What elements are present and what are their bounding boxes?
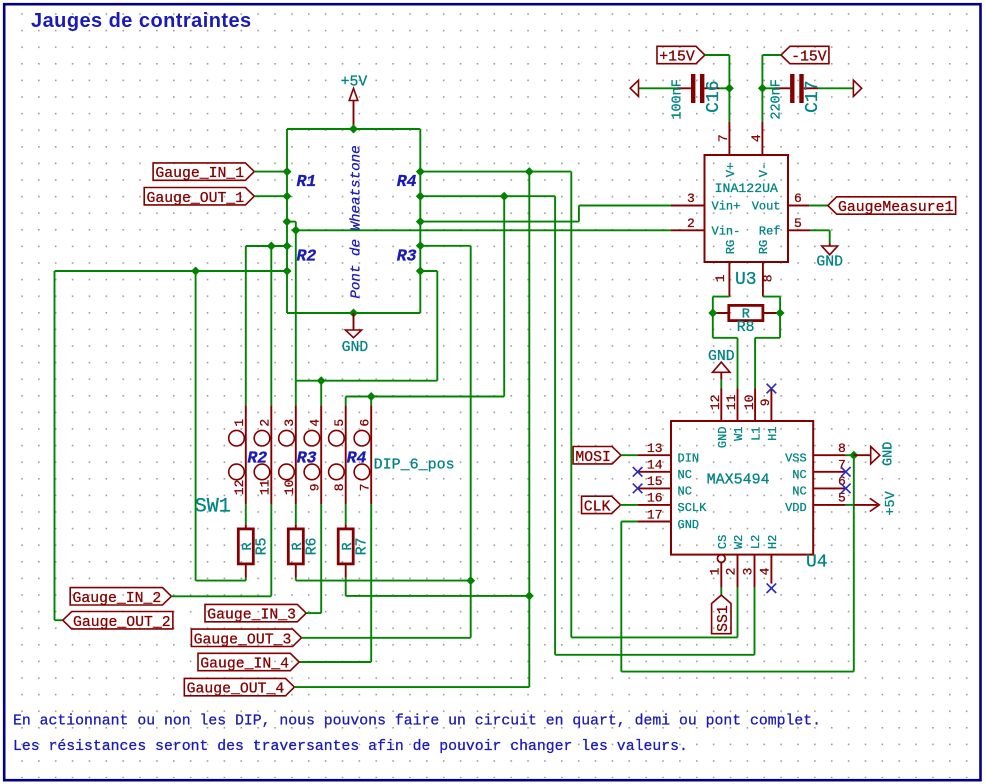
svg-text:V+: V+ xyxy=(724,163,738,177)
wire GND bus right vertical xyxy=(853,455,855,671)
wire Vout to label xyxy=(809,205,828,207)
svg-text:4: 4 xyxy=(749,134,764,142)
wire Gauge_IN_2 up xyxy=(270,504,272,596)
svg-text:Gauge_OUT_4: Gauge_OUT_4 xyxy=(187,682,285,698)
svg-text:R1: R1 xyxy=(297,172,317,191)
svg-text:R4: R4 xyxy=(397,172,417,191)
svg-text:8: 8 xyxy=(838,441,846,456)
svg-text:16: 16 xyxy=(647,491,663,506)
svg-text:R5: R5 xyxy=(255,538,271,556)
junction DIP pos6 xyxy=(367,392,376,401)
wire Gauge_OUT_4 xyxy=(294,686,529,688)
svg-text:NC: NC xyxy=(678,485,692,499)
resistor R5 xyxy=(238,524,256,577)
svg-text:U3: U3 xyxy=(735,270,757,290)
wire net Vin- down to DIP xyxy=(295,230,297,380)
wire MOSI to pin13 xyxy=(621,454,638,456)
label +15V xyxy=(657,46,705,65)
wire R6 bottom horizontal xyxy=(296,580,471,582)
junction R8 left xyxy=(708,309,717,318)
svg-text:8: 8 xyxy=(332,483,347,491)
svg-text:11: 11 xyxy=(724,394,739,410)
junction left rail 3 xyxy=(283,217,292,226)
svg-text:Vin-: Vin- xyxy=(712,225,741,239)
junction net OUT4 xyxy=(525,167,534,176)
junction VSS GND xyxy=(849,451,858,460)
junction bridge top xyxy=(349,125,358,134)
wire R5 top xyxy=(245,504,247,524)
wire Ref to GND xyxy=(810,229,830,231)
svg-text:GND: GND xyxy=(716,426,730,448)
junction R6 OUT3 xyxy=(466,576,475,585)
wire C16 right xyxy=(719,87,729,89)
svg-text:DIN: DIN xyxy=(678,452,700,466)
wire R6 bottom xyxy=(295,578,297,581)
svg-text:R3: R3 xyxy=(397,247,417,266)
ground GND at U4 pin12 xyxy=(708,349,735,379)
svg-text:Jauges de contraintes: Jauges de contraintes xyxy=(31,10,252,32)
wire Gauge_IN_4 xyxy=(299,661,371,663)
wire R5 bottom xyxy=(245,578,247,581)
label SS1 xyxy=(712,595,732,634)
svg-text:V-: V- xyxy=(757,163,771,177)
switch SW1 position 1 xyxy=(229,405,247,504)
svg-text:+5V: +5V xyxy=(341,75,368,91)
wire R7 bottom horizontal xyxy=(346,595,530,597)
wire tap Vin- a xyxy=(287,221,296,223)
svg-text:U4: U4 xyxy=(806,553,828,573)
svg-text:GND: GND xyxy=(816,254,843,270)
svg-text:11: 11 xyxy=(258,479,273,495)
junction R7 OUT4 xyxy=(525,591,534,600)
label Gauge_IN_2 xyxy=(70,588,171,607)
wire right rail 2 horizontal xyxy=(420,195,555,197)
wire R8 bottom right xyxy=(755,337,780,339)
wire R5 bottom horizontal xyxy=(196,580,246,582)
wire pin2 horizontal xyxy=(571,636,737,638)
svg-text:Ref: Ref xyxy=(759,225,781,239)
svg-text:10: 10 xyxy=(742,394,757,410)
svg-text:Gauge_OUT_2: Gauge_OUT_2 xyxy=(73,615,171,631)
wire pin2 down xyxy=(737,587,739,637)
wire R8 bottom to pin10 xyxy=(754,338,756,389)
svg-text:100nF: 100nF xyxy=(670,79,685,120)
wire R8 bottom to pin11 xyxy=(737,338,739,389)
svg-text:NC: NC xyxy=(792,468,806,482)
wire net Vin- horizontal xyxy=(296,229,671,231)
svg-text:Vin+: Vin+ xyxy=(712,200,741,214)
svg-text:7: 7 xyxy=(716,134,731,142)
junction C17 xyxy=(758,84,767,93)
wire down to R5 bottom xyxy=(195,271,197,581)
svg-text:RG: RG xyxy=(724,240,738,254)
junction right rail 1 xyxy=(416,167,425,176)
wire Gauge_IN_2 xyxy=(171,595,271,597)
wire pin3 down xyxy=(754,587,756,654)
pin 6 Vout xyxy=(752,191,810,214)
svg-text:Les résistances seront des tra: Les résistances seront des traversantes … xyxy=(13,739,688,755)
svg-text:7: 7 xyxy=(357,483,372,491)
wire DIP pos5 stub xyxy=(345,397,347,406)
wire C16 left xyxy=(639,87,677,89)
svg-text:2: 2 xyxy=(687,216,695,231)
wire net OUT4 vertical xyxy=(570,172,572,638)
svg-text:2: 2 xyxy=(258,419,273,427)
wire net pin3U4 vertical upper xyxy=(503,196,505,396)
pin 14 NC left xyxy=(638,458,692,483)
wire tap Vin- b xyxy=(295,222,297,231)
wire right rail 3 horizontal xyxy=(420,221,579,223)
wire DIP pos2 feed xyxy=(270,246,272,405)
capacitor C16 xyxy=(677,74,719,103)
svg-text:L2: L2 xyxy=(749,535,763,549)
no-connect pin 7 xyxy=(841,467,851,477)
no-connect pin 9 xyxy=(767,384,777,394)
svg-text:5: 5 xyxy=(794,216,802,231)
pin 10 L1 top xyxy=(742,389,764,441)
svg-text:INA122UA: INA122UA xyxy=(715,181,778,196)
wire left down to Gauge_OUT_2 xyxy=(54,271,56,620)
switch SW1 position 5 xyxy=(329,405,347,504)
wire -15V down xyxy=(761,55,763,122)
switch SW1 position 4 xyxy=(304,405,322,504)
wire Gauge_OUT_2 stub xyxy=(55,619,63,621)
svg-text:DIP_6_pos: DIP_6_pos xyxy=(374,456,455,473)
svg-text:L1: L1 xyxy=(750,426,764,440)
junction Vin- tap xyxy=(291,226,300,235)
junction left rail 1 xyxy=(283,167,292,176)
svg-text:5: 5 xyxy=(332,419,347,427)
junction R8 right xyxy=(776,309,785,318)
svg-text:12: 12 xyxy=(708,394,723,410)
svg-text:15: 15 xyxy=(647,474,663,489)
pin 13 DIN left xyxy=(638,441,700,466)
wire +15V to C16 xyxy=(705,54,730,56)
svg-text:+5V: +5V xyxy=(884,490,899,515)
wire GND bus bottom xyxy=(621,671,854,673)
no-connect pin 4 xyxy=(767,583,777,593)
junction left rail 4 xyxy=(283,242,292,251)
pin 6 NC right xyxy=(792,474,846,499)
svg-text:NC: NC xyxy=(792,485,806,499)
pin 3 Vin+ xyxy=(671,191,741,214)
svg-text:1: 1 xyxy=(232,419,247,427)
svg-text:R2: R2 xyxy=(247,448,267,467)
wire pin3 horizontal xyxy=(555,654,754,656)
arrow right unconnected xyxy=(853,80,861,96)
svg-text:R6: R6 xyxy=(305,538,321,556)
svg-text:SCLK: SCLK xyxy=(678,501,708,515)
wire net OUT3 vertical xyxy=(470,246,472,638)
wire pin8 to GND xyxy=(846,454,854,456)
wire right rail 4 horizontal xyxy=(420,245,470,247)
svg-text:R7: R7 xyxy=(355,538,371,556)
wire net OUT4 vertical long xyxy=(528,172,530,688)
no-connect pin 6 xyxy=(841,484,851,494)
svg-text:H2: H2 xyxy=(766,535,780,549)
svg-text:Pont de Wheatstone: Pont de Wheatstone xyxy=(348,145,364,298)
wire net Vin+ xyxy=(579,205,671,207)
pin 15 NC left xyxy=(638,474,692,499)
label Gauge_IN_1 xyxy=(153,163,254,182)
pin 1 RG xyxy=(713,240,738,297)
wire GND to pin12 xyxy=(720,379,722,388)
switch SW1 position 3 xyxy=(279,405,297,504)
junction net pin3 U4 xyxy=(500,192,509,201)
svg-text:R8: R8 xyxy=(737,320,755,336)
wire Gauge_IN_3 xyxy=(306,612,321,614)
pin 12 GND top xyxy=(708,389,730,449)
pin 2 W2 bottom xyxy=(724,535,747,588)
junction right rail 3 xyxy=(416,217,425,226)
wire Ref GND down xyxy=(829,230,831,243)
svg-text:6: 6 xyxy=(794,191,802,206)
ground GND bridge xyxy=(342,313,369,356)
svg-text:9: 9 xyxy=(307,483,322,491)
wire C17 left xyxy=(762,87,775,89)
junction DIP pos2 feed xyxy=(267,242,276,251)
label Gauge_OUT_1 xyxy=(144,188,254,207)
pin 7 V+ xyxy=(716,122,738,178)
svg-text:Gauge_IN_4: Gauge_IN_4 xyxy=(200,657,289,673)
pin 8 RG xyxy=(757,240,775,297)
junction C16 xyxy=(725,84,734,93)
wire Gauge_IN_3 up xyxy=(320,504,322,613)
svg-text:Vout: Vout xyxy=(752,200,781,214)
label CLK xyxy=(582,496,621,515)
wire DIP pos3 horizontal xyxy=(296,380,438,382)
svg-text:R: R xyxy=(291,542,306,550)
pin 5 Ref xyxy=(759,216,810,239)
ground GND at Ref xyxy=(816,244,843,271)
wire R7 top xyxy=(345,504,347,524)
junction bridge bottom xyxy=(349,309,358,318)
junction left rail 2 xyxy=(283,192,292,201)
svg-text:R4: R4 xyxy=(347,448,367,467)
svg-text:MOSI: MOSI xyxy=(575,450,611,466)
svg-text:1: 1 xyxy=(713,274,728,282)
junction right rail 4 xyxy=(416,241,425,250)
svg-text:GaugeMeasure1: GaugeMeasure1 xyxy=(838,200,954,216)
svg-text:4: 4 xyxy=(757,567,772,575)
svg-text:Gauge_IN_1: Gauge_IN_1 xyxy=(155,166,244,182)
svg-text:1: 1 xyxy=(707,567,722,575)
capacitor C17 xyxy=(775,74,818,103)
junction R5 net xyxy=(191,267,200,276)
pin 7 NC right xyxy=(792,458,846,483)
svg-text:MAX5494: MAX5494 xyxy=(707,471,770,488)
wire bridge left rail xyxy=(286,129,288,313)
wire R8 top right xyxy=(763,296,780,298)
arrow left unconnected xyxy=(630,80,638,96)
svg-text:-15V: -15V xyxy=(791,50,827,66)
switch SW1 position 6 xyxy=(354,405,372,504)
svg-text:14: 14 xyxy=(647,458,663,473)
power +5V xyxy=(341,75,368,129)
wire bridge right rail xyxy=(419,129,421,313)
label -15V xyxy=(781,46,829,65)
resistor R7 xyxy=(338,524,356,577)
svg-text:VSS: VSS xyxy=(785,452,807,466)
pin 11 W1 top xyxy=(724,389,746,441)
wire bridge top xyxy=(287,128,420,130)
svg-text:220nF: 220nF xyxy=(769,79,784,120)
wire Gauge_OUT_3 xyxy=(302,637,471,639)
svg-text:13: 13 xyxy=(647,441,663,456)
svg-text:SW1: SW1 xyxy=(195,496,231,519)
pin 4 H2 bottom xyxy=(757,535,780,584)
wire Gauge_OUT_1 xyxy=(254,195,287,197)
svg-text:C17: C17 xyxy=(803,80,823,112)
svg-text:10: 10 xyxy=(282,479,297,495)
wire DIP pos34 feed down xyxy=(436,271,438,381)
svg-text:C16: C16 xyxy=(704,80,724,112)
wire DIP pos6 stub xyxy=(370,397,372,406)
wire C17 right xyxy=(818,87,853,89)
wire Vin+ jog xyxy=(578,206,580,222)
pin 5 VDD right xyxy=(785,491,846,516)
wire pin17 down xyxy=(620,522,622,672)
label Gauge_IN_3 xyxy=(205,604,306,623)
pin 2 Vin- xyxy=(671,216,741,239)
svg-text:6: 6 xyxy=(357,419,372,427)
svg-text:R: R xyxy=(341,542,356,550)
svg-text:3: 3 xyxy=(687,191,695,206)
svg-text:GND: GND xyxy=(882,442,897,466)
label Gauge_IN_4 xyxy=(198,653,299,672)
no-connect pin 15 xyxy=(633,484,643,494)
svg-text:SS1: SS1 xyxy=(716,605,732,632)
svg-text:Gauge_OUT_1: Gauge_OUT_1 xyxy=(146,191,244,207)
wire tap left rail 4 xyxy=(246,245,287,247)
wire -15V to C17 xyxy=(762,54,781,56)
wire DIP pos3 stub xyxy=(295,381,297,406)
pin 17 GND left xyxy=(638,507,700,532)
label Gauge_OUT_4 xyxy=(184,678,294,697)
pin 8 VSS right xyxy=(785,441,846,466)
wire DIP pos4 stub xyxy=(320,381,322,406)
power GND arrow right xyxy=(854,442,897,466)
svg-text:Gauge_IN_3: Gauge_IN_3 xyxy=(207,608,296,624)
pin 4 V- xyxy=(749,122,771,178)
svg-text:4: 4 xyxy=(307,419,322,427)
wire pin1 to SS1 xyxy=(720,587,722,595)
wire pin17 stub xyxy=(621,521,637,523)
svg-text:En actionnant ou non les DIP,: En actionnant ou non les DIP, nous pouvo… xyxy=(13,714,821,730)
junction right rail 5 xyxy=(416,267,425,276)
svg-text:3: 3 xyxy=(282,419,297,427)
pin 1 CS bottom xyxy=(707,535,730,588)
svg-text:+15V: +15V xyxy=(659,50,695,66)
svg-text:W2: W2 xyxy=(732,535,746,549)
svg-text:Gauge_OUT_3: Gauge_OUT_3 xyxy=(194,632,292,648)
wire right rail 1 horizontal xyxy=(420,171,571,173)
label Gauge_OUT_3 xyxy=(191,629,301,648)
op-amp U3 body xyxy=(705,155,789,262)
svg-text:R: R xyxy=(241,542,256,550)
svg-text:R2: R2 xyxy=(297,247,317,266)
wire right rail 5 horizontal xyxy=(420,270,437,272)
svg-text:CS: CS xyxy=(716,535,730,549)
pin 3 L2 bottom xyxy=(741,535,764,588)
svg-text:3: 3 xyxy=(741,568,756,576)
svg-text:17: 17 xyxy=(647,507,663,522)
junction DIP pos4 xyxy=(317,376,326,385)
svg-text:2: 2 xyxy=(724,568,739,576)
junction left rail 5 xyxy=(283,267,292,276)
svg-text:CLK: CLK xyxy=(584,499,611,515)
pin 9 H1 top xyxy=(758,389,780,441)
svg-text:8: 8 xyxy=(760,274,775,282)
svg-text:VDD: VDD xyxy=(785,501,807,515)
svg-text:H1: H1 xyxy=(766,426,780,440)
resistor R6 xyxy=(288,524,306,577)
svg-text:W1: W1 xyxy=(732,426,746,440)
svg-text:12: 12 xyxy=(232,479,247,495)
wire bridge bottom xyxy=(287,312,420,314)
label GaugeMeasure1 xyxy=(828,197,956,216)
svg-text:9: 9 xyxy=(758,398,773,406)
svg-text:RG: RG xyxy=(757,240,771,254)
wire R8 bottom left xyxy=(713,337,738,339)
wire +15V down xyxy=(728,55,730,122)
power +5V arrow right xyxy=(846,490,899,515)
svg-text:GND: GND xyxy=(342,340,369,356)
wire DIP pos5 horizontal xyxy=(346,396,505,398)
pin 16 SCLK left xyxy=(638,491,708,516)
wire tap left rail 5 xyxy=(55,270,288,272)
wire net pin3 vertical xyxy=(554,196,556,655)
label Gauge_OUT_2 xyxy=(63,612,173,631)
IC U4 body xyxy=(671,421,813,555)
wire R7 bottom xyxy=(345,578,347,596)
wire Gauge_IN_4 up xyxy=(370,504,372,662)
svg-text:Gauge_IN_2: Gauge_IN_2 xyxy=(72,591,161,607)
wire R8 left rail xyxy=(712,297,714,338)
wire CLK to pin16 xyxy=(621,504,638,506)
resistor R8 xyxy=(713,305,780,322)
wire DIP pos1 feed xyxy=(245,246,247,405)
svg-text:GND: GND xyxy=(678,518,700,532)
wire Gauge_IN_1 xyxy=(254,171,287,173)
wire R8 right rail xyxy=(779,297,781,338)
svg-text:NC: NC xyxy=(678,468,692,482)
wire R6 top xyxy=(295,504,297,524)
junction right rail 2 xyxy=(416,192,425,201)
no-connect pin 14 xyxy=(633,467,643,477)
svg-text:R3: R3 xyxy=(297,448,317,467)
switch SW1 position 2 xyxy=(254,405,272,504)
label MOSI xyxy=(573,447,621,466)
wire R8 top left xyxy=(713,296,730,298)
